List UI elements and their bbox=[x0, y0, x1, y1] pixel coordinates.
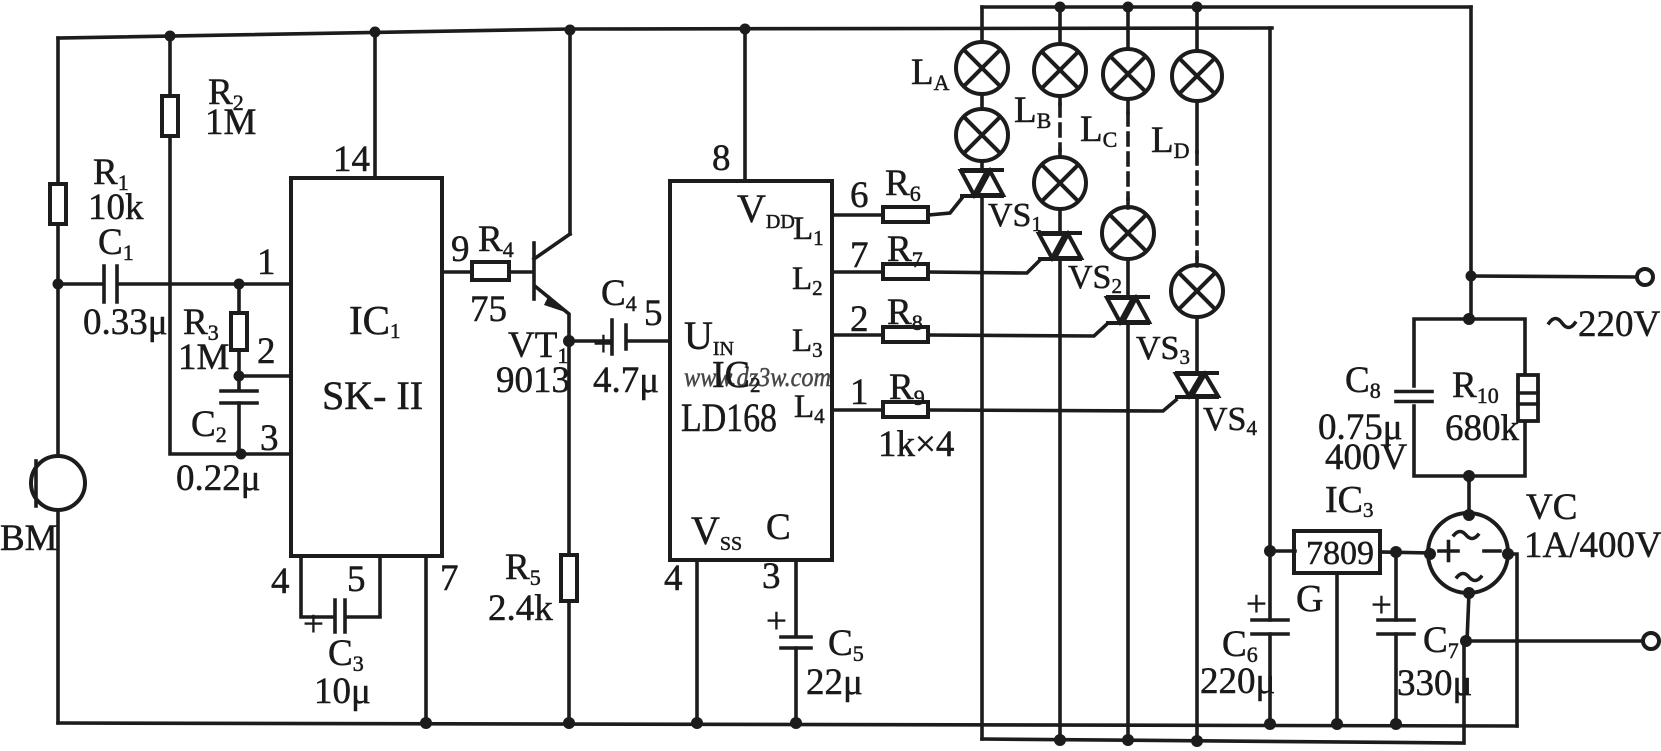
svg-text:1M: 1M bbox=[205, 102, 256, 143]
svg-text:L2: L2 bbox=[792, 261, 823, 300]
svg-text:VDD: VDD bbox=[737, 186, 795, 233]
svg-text:680k: 680k bbox=[1445, 408, 1520, 449]
node 220V top junction bbox=[1466, 271, 1477, 282]
svg-text:220μ: 220μ bbox=[1200, 661, 1275, 702]
svg-text:1A/400V: 1A/400V bbox=[1524, 525, 1661, 566]
terminal 220V bottom bbox=[1643, 633, 1659, 649]
svg-text:L1: L1 bbox=[793, 211, 824, 250]
wire LA column bbox=[980, 7, 984, 739]
triac VS1 bbox=[960, 170, 1004, 196]
svg-text:VS4: VS4 bbox=[1203, 401, 1257, 440]
resistor R10 (striped) bbox=[1518, 375, 1538, 421]
svg-text:4.7μ: 4.7μ bbox=[593, 360, 659, 401]
lamp LC-1 bbox=[1103, 49, 1153, 99]
triac VS3 bbox=[1106, 297, 1150, 323]
svg-text:VS1: VS1 bbox=[988, 197, 1042, 236]
capacitor C2 bbox=[237, 376, 241, 454]
svg-text:LD: LD bbox=[1151, 120, 1190, 163]
svg-text:1: 1 bbox=[257, 242, 276, 283]
svg-text:5: 5 bbox=[644, 293, 663, 334]
triac VS4 bbox=[1175, 373, 1219, 397]
svg-text:LB: LB bbox=[1014, 90, 1051, 133]
node LB top bbox=[1055, 2, 1066, 13]
wire R8 to VS3 gate bbox=[928, 324, 1107, 336]
wire +9V top rail bbox=[58, 28, 1272, 38]
resistor R5 bbox=[567, 341, 571, 723]
wire G pin 7809 bbox=[1335, 573, 1339, 724]
svg-text:5: 5 bbox=[347, 559, 366, 600]
svg-text:C5: C5 bbox=[828, 623, 864, 666]
svg-text:1: 1 bbox=[850, 372, 869, 413]
lamp LD-2 bbox=[1171, 265, 1223, 317]
wire lamp top AC line bbox=[982, 5, 1471, 9]
svg-text:7: 7 bbox=[440, 558, 459, 599]
svg-text:+: + bbox=[1246, 584, 1267, 625]
svg-text:R5: R5 bbox=[505, 547, 541, 590]
svg-text:LA: LA bbox=[911, 52, 950, 95]
svg-text:1M: 1M bbox=[178, 337, 229, 378]
node pin14 top bbox=[370, 27, 381, 38]
svg-text:3: 3 bbox=[260, 418, 279, 459]
svg-text:www.dz3w.com: www.dz3w.com bbox=[684, 362, 831, 392]
wire ground rail bbox=[58, 723, 1517, 726]
wire R6 to VS1 gate bbox=[928, 198, 962, 215]
wire LB column bbox=[1058, 7, 1062, 740]
svg-text:C1: C1 bbox=[98, 222, 134, 265]
microphone BM bbox=[31, 456, 85, 510]
svg-text:C: C bbox=[766, 507, 791, 548]
lamp LD-1 bbox=[1172, 51, 1222, 101]
resistor R7 bbox=[832, 270, 883, 274]
wire to 220V bottom terminal bbox=[1466, 639, 1643, 643]
wire pin7 IC1 bbox=[424, 556, 428, 723]
svg-text:220V: 220V bbox=[1578, 304, 1661, 345]
capacitor C5 bbox=[794, 560, 798, 723]
wire pin5 IC1 bbox=[348, 556, 380, 617]
node LC top bbox=[1123, 2, 1134, 13]
wire to 220V top terminal bbox=[1471, 276, 1637, 277]
node VS2 bottom bbox=[1054, 734, 1066, 746]
svg-text:+: + bbox=[593, 324, 614, 365]
wire pin4 IC1 to C3 bbox=[301, 556, 332, 617]
rectifier VC bridge bbox=[1428, 513, 1508, 593]
svg-text:3: 3 bbox=[762, 556, 781, 597]
wire AC rail riser bbox=[1464, 639, 1466, 643]
wire LD dashed bbox=[1195, 152, 1199, 258]
wire VC left to 7809 bbox=[1380, 552, 1430, 553]
svg-text:VS3: VS3 bbox=[1136, 330, 1190, 369]
svg-text:9013: 9013 bbox=[496, 360, 570, 401]
wire left vertical (R1/BM branch) bbox=[56, 38, 60, 723]
IC U2 LD168 box bbox=[670, 181, 832, 560]
node LD top bbox=[1192, 2, 1203, 13]
svg-text:0.33μ: 0.33μ bbox=[83, 302, 168, 343]
resistor R3 bbox=[237, 284, 241, 376]
svg-text:2: 2 bbox=[850, 299, 869, 340]
svg-text:4: 4 bbox=[271, 561, 290, 602]
svg-text:R7: R7 bbox=[887, 229, 923, 272]
capacitor C7 bbox=[1394, 552, 1398, 724]
wire VC right to ground bbox=[1508, 554, 1517, 726]
triac VS2 bbox=[1038, 233, 1082, 259]
svg-text:C7: C7 bbox=[1423, 620, 1459, 663]
node pin7 ground bbox=[420, 717, 432, 729]
svg-text:C4: C4 bbox=[601, 273, 637, 316]
wire LD column bbox=[1195, 7, 1199, 741]
node R2 top bbox=[165, 31, 176, 42]
svg-text:R6: R6 bbox=[885, 163, 921, 206]
node 9V C6 junction bbox=[1264, 545, 1276, 557]
wire R9 to VS4 gate bbox=[928, 400, 1176, 411]
capacitor C4 bbox=[569, 339, 670, 343]
svg-text:+: + bbox=[1371, 585, 1392, 626]
node G ground bbox=[1331, 718, 1343, 730]
svg-text:2.4k: 2.4k bbox=[488, 588, 553, 629]
node R5 ground bbox=[563, 717, 575, 729]
wire box to VC bbox=[1467, 476, 1471, 514]
node VC left bbox=[1424, 548, 1436, 560]
capacitor C1 bbox=[58, 282, 291, 286]
svg-text:L3: L3 bbox=[792, 323, 823, 362]
resistor R8 bbox=[832, 333, 883, 337]
svg-text:+: + bbox=[303, 604, 324, 645]
op-amp IC1 box SK-II bbox=[291, 178, 442, 556]
svg-text:9: 9 bbox=[451, 229, 470, 270]
svg-text:R4: R4 bbox=[478, 219, 514, 262]
resistor R4 bbox=[472, 262, 509, 280]
wire pin2 bbox=[239, 374, 291, 378]
capacitor C8 bbox=[1396, 392, 1432, 402]
wire 9V riser / C6 column bbox=[1268, 28, 1272, 724]
node VS4 bottom bbox=[1191, 735, 1203, 747]
node pin1 junction bbox=[234, 279, 245, 290]
node VT1 emitter bbox=[563, 335, 575, 347]
node C7 top bbox=[1390, 546, 1402, 558]
svg-text:SK- II: SK- II bbox=[322, 373, 423, 418]
wire LC column bbox=[1126, 7, 1130, 740]
lamp LB-1 bbox=[1034, 44, 1086, 96]
lamp LC-2 bbox=[1102, 207, 1154, 259]
IC3 7809 box bbox=[1294, 531, 1380, 573]
svg-text:IC3: IC3 bbox=[1325, 479, 1374, 522]
lamp LA-1 bbox=[956, 42, 1008, 94]
wire pin14 bbox=[373, 32, 377, 178]
svg-text:R10: R10 bbox=[1452, 365, 1499, 408]
wire 7809 out to 9V node bbox=[1270, 549, 1295, 553]
terminal 220V top bbox=[1637, 269, 1653, 285]
svg-text:BM: BM bbox=[0, 518, 58, 559]
node C5 ground bbox=[790, 717, 802, 729]
node R3-C2 junction bbox=[234, 371, 245, 382]
svg-text:330μ: 330μ bbox=[1397, 663, 1472, 704]
svg-text:IC1: IC1 bbox=[349, 297, 401, 343]
transistor Q1 VT1 9013 bbox=[532, 243, 536, 299]
svg-text:R9: R9 bbox=[889, 367, 925, 410]
svg-text:400V: 400V bbox=[1325, 437, 1408, 478]
svg-text:75: 75 bbox=[470, 289, 507, 330]
wire pin4 IC2 bbox=[695, 560, 699, 723]
svg-text:7: 7 bbox=[850, 235, 869, 276]
svg-text:C8: C8 bbox=[1345, 360, 1381, 403]
svg-text:1k×4: 1k×4 bbox=[878, 424, 954, 465]
lamp LA-2 bbox=[956, 109, 1008, 161]
node C6 ground bbox=[1264, 718, 1276, 730]
node VC top bbox=[1463, 509, 1475, 521]
svg-text:8: 8 bbox=[712, 138, 731, 179]
svg-text:VC: VC bbox=[1526, 487, 1577, 528]
wire pin8 bbox=[743, 29, 747, 181]
resistor R9 bbox=[832, 408, 883, 412]
resistor R2 bbox=[170, 35, 291, 454]
svg-text:14: 14 bbox=[333, 139, 370, 180]
svg-text:6: 6 bbox=[850, 175, 869, 216]
svg-text:22μ: 22μ bbox=[806, 662, 863, 703]
node VT1 collector top bbox=[565, 25, 576, 36]
svg-text:L4: L4 bbox=[794, 389, 825, 428]
svg-text:0.22μ: 0.22μ bbox=[176, 458, 261, 499]
capacitor C6 bbox=[1252, 620, 1288, 634]
svg-text:G: G bbox=[1296, 578, 1323, 620]
svg-text:2: 2 bbox=[257, 331, 276, 372]
node C1-R1 junction bbox=[53, 279, 64, 290]
svg-text:LC: LC bbox=[1080, 109, 1117, 152]
node pin8 top bbox=[740, 24, 751, 35]
node AC bottom junction bbox=[1460, 635, 1472, 647]
svg-text:R8: R8 bbox=[887, 292, 923, 335]
resistor R1 bbox=[50, 184, 66, 224]
VC bridge internal marks bbox=[1439, 532, 1500, 581]
svg-text:C2: C2 bbox=[191, 404, 227, 447]
node C8R10 box top bbox=[1463, 313, 1475, 325]
node C8R10 box bottom bbox=[1463, 470, 1475, 482]
node VC right bbox=[1502, 548, 1514, 560]
svg-text:10μ: 10μ bbox=[314, 671, 371, 712]
tilde 220V top bbox=[1549, 319, 1575, 328]
svg-text:VS2: VS2 bbox=[1068, 259, 1122, 298]
svg-text:C3: C3 bbox=[328, 633, 364, 676]
svg-text:VSS: VSS bbox=[691, 508, 742, 555]
wire pin9 bbox=[442, 270, 472, 274]
wire VC bottom drop bbox=[1467, 593, 1469, 641]
node VS3 bottom bbox=[1122, 734, 1134, 746]
wire AC line right drop bbox=[1469, 7, 1473, 318]
resistor R6 bbox=[832, 213, 883, 217]
lamp LB-2 bbox=[1034, 157, 1086, 209]
svg-text:LD168: LD168 bbox=[681, 395, 777, 440]
svg-text:UIN: UIN bbox=[684, 313, 734, 360]
node VC bottom bbox=[1463, 587, 1475, 599]
C8/R10 parallel box bbox=[1414, 319, 1525, 476]
wire LC dashed bbox=[1126, 113, 1130, 199]
wire R7 to VS2 gate bbox=[928, 260, 1040, 273]
svg-text:7809: 7809 bbox=[1306, 535, 1374, 572]
node pin4 ground bbox=[691, 717, 703, 729]
node C7 ground bbox=[1390, 718, 1402, 730]
wire LB dashed bbox=[1058, 104, 1062, 150]
svg-text:4: 4 bbox=[664, 558, 683, 599]
node C2 bottom / pin3 bbox=[236, 449, 247, 460]
svg-text:+: + bbox=[766, 601, 787, 642]
capacitor C3 bbox=[335, 600, 345, 632]
wire AC bottom rail bbox=[982, 641, 1464, 743]
